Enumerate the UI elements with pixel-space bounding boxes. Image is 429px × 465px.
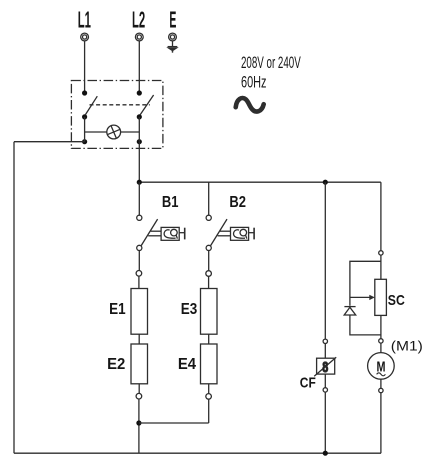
terminal below E4: [206, 394, 212, 400]
svg-text:L1: L1: [78, 7, 91, 33]
wire E2 down: [138, 384, 140, 394]
wire to motor: [380, 343, 382, 353]
wire right column in box: [138, 117, 140, 142]
junction CF-bottom bus: [323, 451, 328, 456]
wire E1-E2: [138, 334, 140, 344]
wire B2 drop: [208, 182, 210, 215]
terminal above CF: [323, 339, 327, 343]
svg-text:B2: B2: [229, 194, 246, 211]
wire L2 down to bus: [138, 142, 140, 183]
wire top bus: [139, 181, 381, 183]
svg-text:M: M: [377, 359, 386, 375]
terminal L1: [81, 33, 89, 41]
terminal L2: [135, 33, 143, 41]
wire CF branch upper: [324, 182, 326, 339]
terminal above E3: [206, 271, 212, 277]
wire bus right drop: [380, 182, 382, 251]
junction bus-CF: [323, 180, 328, 185]
svg-text:E1: E1: [109, 301, 126, 318]
wire left riser: [13, 142, 15, 454]
wire to E3: [208, 276, 210, 288]
switch blade right: [140, 95, 154, 115]
wire SC to motor: [380, 315, 382, 338]
wire exit left: [14, 141, 85, 143]
mechanical link dashed: [90, 104, 150, 106]
dashed enclosure box: [71, 81, 162, 149]
node left mid: [82, 114, 87, 119]
svg-text:E4: E4: [178, 356, 196, 373]
node left top: [82, 90, 87, 95]
svg-text:L2: L2: [132, 7, 145, 33]
wire L2 to box: [138, 41, 140, 93]
wire left column in box: [84, 117, 86, 142]
svg-text:E2: E2: [107, 356, 125, 373]
wire bypass top: [350, 261, 381, 306]
svg-text:B1: B1: [162, 194, 179, 211]
terminal above motor: [379, 339, 383, 343]
terminal above E1: [136, 271, 142, 277]
junction bus-left: [137, 180, 142, 185]
node right bottom: [137, 139, 142, 144]
switch B2: [206, 215, 254, 250]
wire to bottom junction: [138, 399, 140, 453]
node right mid: [137, 114, 142, 119]
wire B1 to E1: [138, 251, 140, 271]
terminal below E2: [136, 393, 142, 399]
svg-text:SC: SC: [388, 292, 405, 309]
heater E1: [131, 289, 148, 335]
wire to CF: [324, 344, 326, 359]
gate arrow: [350, 295, 375, 300]
wire L1 to box: [84, 41, 86, 93]
wire E4 to junction: [208, 399, 210, 423]
diode D1: [344, 307, 356, 315]
wire bypass bottom: [350, 315, 381, 335]
svg-text:CF: CF: [300, 374, 316, 391]
wire motor to bus: [380, 393, 382, 454]
motor M1: [368, 353, 395, 380]
svg-text:E3: E3: [181, 301, 198, 318]
node left bottom: [82, 139, 87, 144]
junction E-columns: [136, 420, 141, 425]
wire below motor: [380, 379, 382, 388]
wire B2 to E3: [208, 251, 210, 271]
switch B1: [137, 215, 185, 250]
ground: [168, 41, 178, 53]
wire bottom bus: [14, 452, 381, 454]
svg-text:E: E: [169, 7, 176, 33]
AC sine symbol: [236, 98, 264, 112]
terminal below CF: [323, 388, 327, 392]
wire to E1: [138, 276, 140, 288]
heater E4: [201, 344, 218, 384]
svg-text:60Hz: 60Hz: [241, 74, 267, 92]
heater E3: [201, 289, 218, 335]
svg-text:8: 8: [322, 360, 328, 376]
wire to SC: [380, 255, 382, 279]
wire junction horizontal: [139, 422, 209, 424]
SCR control SC: [375, 279, 387, 315]
wire E3-E4: [208, 334, 210, 344]
thermal fuse CF: [314, 357, 336, 376]
svg-text:208V or 240V: 208V or 240V: [241, 54, 301, 72]
wire below CF: [324, 374, 326, 388]
svg-text:(M1): (M1): [391, 338, 423, 353]
wire CF to bus: [324, 392, 326, 453]
switch blade left: [85, 96, 97, 115]
terminal above SC: [379, 251, 383, 255]
terminal E: [169, 33, 177, 41]
terminal below motor: [379, 388, 383, 392]
wire B1 drop: [138, 182, 140, 215]
node right top: [137, 90, 142, 95]
lamp: [107, 125, 121, 139]
lamp wire: [85, 131, 107, 133]
heater E2: [131, 344, 148, 384]
wire E4 down: [208, 384, 210, 394]
